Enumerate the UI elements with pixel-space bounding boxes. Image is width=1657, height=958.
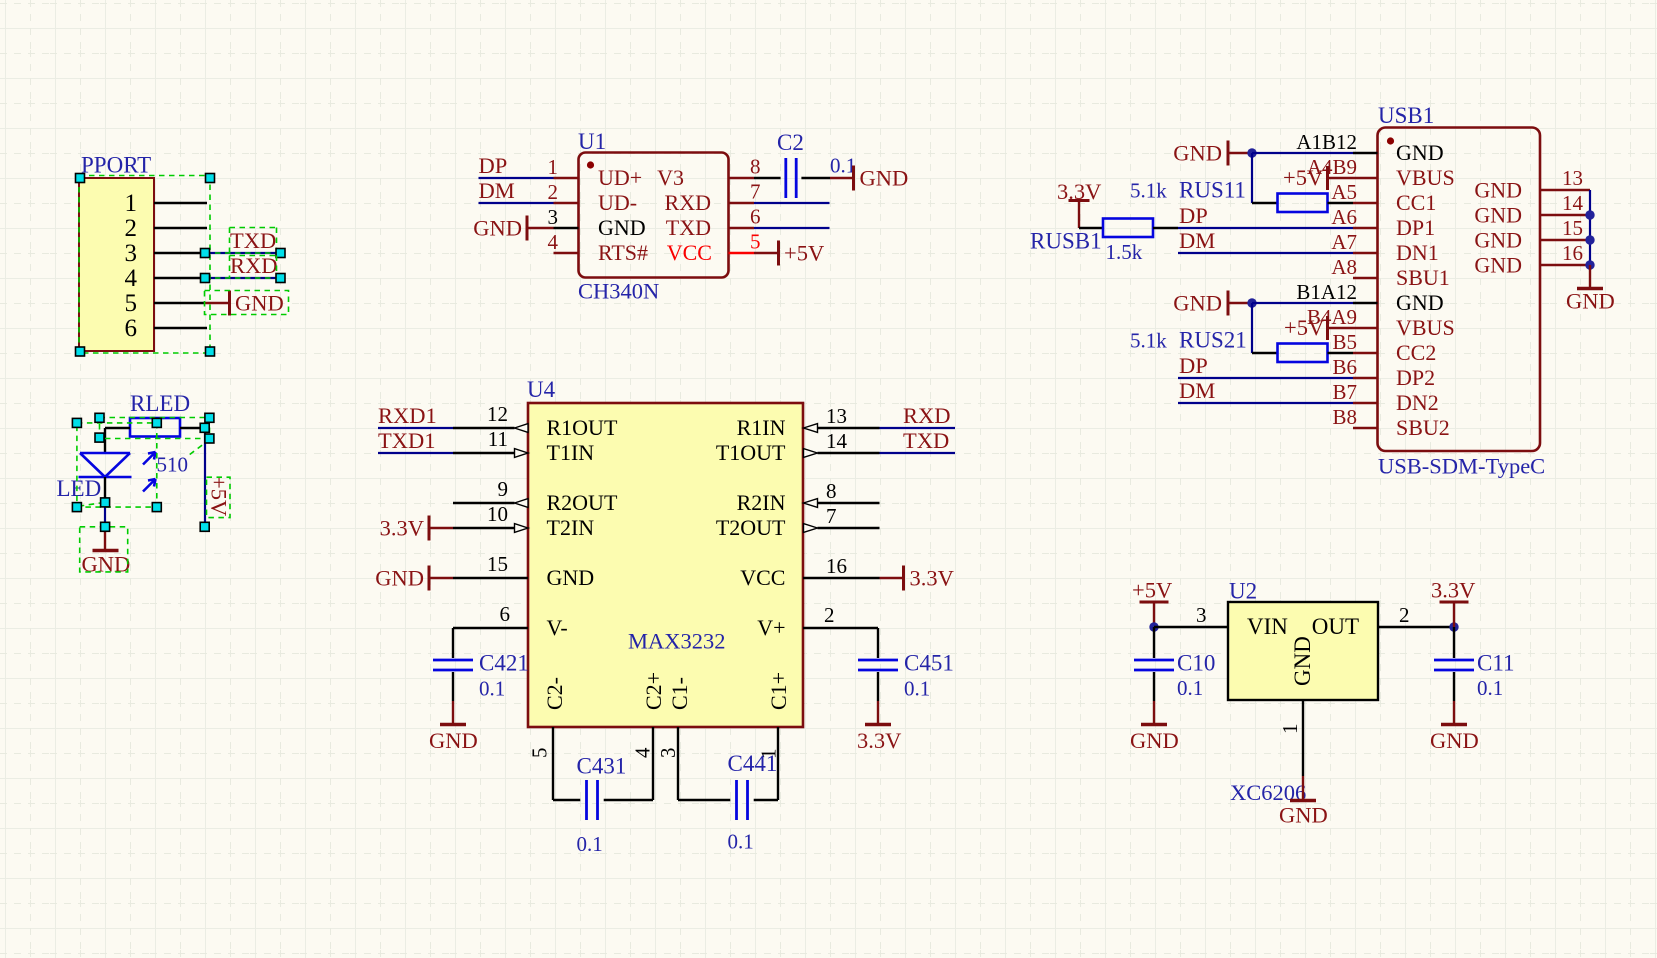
svg-text:A1B12: A1B12 [1296,130,1357,154]
wire RUS11 to CC1 [1328,202,1354,204]
svg-text:GND: GND [598,215,646,240]
svg-text:DN2: DN2 [1396,390,1439,415]
U4 pin 5 wire [552,727,554,800]
svg-text:+5V: +5V [1283,165,1323,190]
selection handles RXD wire [201,274,210,283]
svg-text:DM: DM [479,178,515,203]
capacitor C421 [433,659,473,662]
svg-text:TXD: TXD [666,215,711,240]
svg-text:GND: GND [860,166,909,191]
USB1 pin stub row 6 [1353,277,1378,279]
selection handles RLED LED group [72,418,81,427]
svg-text:GND: GND [1430,728,1479,753]
U1 pin 4 stub [554,252,579,254]
svg-text:T2OUT: T2OUT [716,515,786,540]
selection box RLED group [100,418,210,439]
svg-text:VIN: VIN [1247,614,1288,639]
wire LED cathode down [104,477,106,502]
wire LED to ground [104,502,106,527]
ground GND right of USB1 [1589,265,1591,287]
svg-text:RUSB1: RUSB1 [1030,229,1102,254]
svg-text:2: 2 [548,180,559,204]
PPORT pin 2 wire [154,227,207,229]
svg-text:DP: DP [1179,353,1208,378]
svg-text:DP: DP [479,153,508,178]
wire GND B to USB1 [1252,302,1353,304]
svg-text:13: 13 [1562,166,1583,190]
svg-text:SBU1: SBU1 [1396,265,1450,290]
svg-text:RXD: RXD [665,190,711,215]
svg-text:UD+: UD+ [598,165,642,190]
svg-text:GND: GND [473,216,522,241]
svg-text:1: 1 [548,155,559,179]
selection handles TXD wire [201,249,210,258]
svg-text:UD-: UD- [598,190,637,215]
wire net TXD right [880,452,956,454]
svg-text:C431: C431 [577,754,627,779]
svg-text:1: 1 [125,190,138,217]
U4 pin 2 wire V+ [803,627,878,629]
svg-text:6: 6 [750,205,761,229]
U4 pin 14 wire [818,452,880,454]
svg-text:15: 15 [487,552,508,576]
svg-text:PPORT: PPORT [81,153,151,178]
USB1 pin stub row 7 [1353,302,1378,304]
svg-text:A5: A5 [1331,180,1357,204]
U1 pin 3 stub [554,227,579,229]
power port 3.3V below C451 [865,723,891,727]
U4 pin 3 wire [677,727,679,800]
U4 pin 12 arrow out [515,424,529,433]
ground GND below C10 [1153,701,1155,723]
selection leader line to GND [79,502,104,506]
svg-text:+5V: +5V [784,241,824,266]
selection box LED group [77,423,157,507]
svg-text:GND: GND [1566,289,1615,314]
svg-text:GND: GND [375,566,424,591]
U4 pin 8 wire [818,502,880,504]
svg-text:VBUS: VBUS [1396,315,1455,340]
svg-text:DP2: DP2 [1396,365,1435,390]
U4 pin 9 arrow out [515,499,529,508]
wire RUS21 to CC2 [1328,352,1354,354]
wire net RXD right [880,427,956,429]
svg-text:TXD: TXD [230,228,276,253]
svg-text:VBUS: VBUS [1396,165,1455,190]
svg-text:0.1: 0.1 [1477,676,1503,700]
svg-text:0.1: 0.1 [577,832,603,856]
svg-text:0.1: 0.1 [904,677,930,701]
selection box around PPORT [79,176,210,354]
svg-text:R1IN: R1IN [737,415,786,440]
svg-text:B8: B8 [1332,405,1357,429]
wire 3.3V to RUSB1 [1079,227,1103,229]
svg-text:5: 5 [750,230,761,254]
selection handles PPORT [76,174,85,183]
capacitor C2 [784,158,787,198]
resistor RUS21 body [1278,344,1328,363]
U4 pin 11 wire [453,452,515,454]
selection box RXD label [230,255,277,257]
junction dot shield 14 [1585,210,1594,219]
svg-text:U1: U1 [578,129,606,154]
svg-text:5: 5 [528,748,552,759]
PPORT pin 4 wire [154,277,205,279]
ground port GND mid left of USB1 [1227,291,1230,316]
svg-text:GND: GND [1173,291,1222,316]
svg-text:16: 16 [826,554,847,578]
USB1 pin 1 orientation dot [1387,137,1394,144]
svg-text:3: 3 [656,748,680,759]
svg-text:GND: GND [1130,728,1179,753]
capacitor C431 [585,780,588,820]
svg-text:RLED: RLED [130,391,190,416]
PPORT pin 3 wire [154,252,205,254]
svg-text:12: 12 [487,402,508,426]
svg-text:5: 5 [125,290,138,317]
svg-text:B1A12: B1A12 [1296,280,1357,304]
svg-text:C11: C11 [1477,651,1515,676]
U4 pin 15 wire [453,577,528,579]
IC U4 MAX3232 body [528,403,803,727]
wire C451 to 3.3V [877,672,879,701]
svg-text:6: 6 [125,315,138,342]
capacitor C11 [1453,627,1455,658]
svg-text:C2: C2 [777,130,804,155]
svg-text:5.1k: 5.1k [1130,179,1167,203]
resistor RUSB1 body [1103,219,1153,238]
U1 pin 7 stub [729,202,755,204]
USB1 shield pin 14 wire [1540,214,1590,216]
svg-text:V-: V- [547,615,568,640]
ground port GND right of C2 [852,166,855,191]
USB1 pin stub row 8 [1353,327,1378,329]
PPORT pin 5 wire [154,302,205,304]
U1 pin 5 stub [729,252,755,254]
USB1 pin stub row 3 [1353,202,1378,204]
svg-text:DM: DM [1179,378,1215,403]
U4 pin 8 arrow in [804,499,818,508]
svg-text:8: 8 [750,155,761,179]
wire junction down to RUS11 [1251,153,1253,203]
svg-text:RXD: RXD [230,253,278,278]
U4 pin 6 wire V- [453,627,528,629]
U1 pin 2 stub [554,202,579,204]
wire RUSB1 to DP net [1153,227,1178,229]
wire from RLED right [180,427,205,429]
svg-text:CH340N: CH340N [578,279,659,304]
wire net TXD [205,252,280,254]
svg-text:GND: GND [1474,228,1522,253]
svg-text:3.3V: 3.3V [380,516,424,541]
svg-text:9: 9 [498,477,509,501]
wire net DP B [1178,377,1353,379]
LED emission arrow 1 [143,452,156,465]
wire net DP to U1 [479,177,554,179]
ground port GND at U1 pin 3 [526,216,529,241]
svg-text:GND: GND [1290,636,1315,686]
svg-text:1.5k: 1.5k [1106,240,1143,264]
svg-text:3.3V: 3.3V [857,728,901,753]
svg-text:3: 3 [548,205,559,229]
svg-text:GND: GND [82,552,131,577]
ground GND below C11 [1453,701,1455,723]
U4 pin 13 arrow in [804,424,818,433]
svg-text:USB-SDM-TypeC: USB-SDM-TypeC [1378,454,1545,479]
connector USB1 body [1378,128,1541,452]
svg-text:7: 7 [826,504,837,528]
svg-text:RUS21: RUS21 [1179,328,1247,353]
ground GND below U2 [1302,776,1304,799]
svg-text:10: 10 [487,502,508,526]
U4 pin 12 wire [453,427,515,429]
junction dot shield 16 [1585,260,1594,269]
U4 pin 7 arrow out [804,524,818,533]
USB1 shield pin 15 wire [1540,239,1590,241]
power port +5V at U1 pin5 [777,241,780,266]
ground GND below LED [104,527,106,549]
wire net +5V vertical [204,428,206,527]
U4 pin 9 wire [453,502,515,504]
wire U1 pin8 to C2 [754,177,781,179]
svg-text:C1-: C1- [667,677,692,710]
USB1 pin stub row 5 [1353,252,1378,254]
svg-text:DP1: DP1 [1396,215,1435,240]
connector PPORT body [79,178,154,351]
U4 pin 7 wire [818,527,880,529]
LED emission arrow 2 [143,479,156,492]
wire net DM to U1 [479,202,554,204]
svg-text:B7: B7 [1332,380,1357,404]
svg-text:3: 3 [1196,603,1207,627]
svg-text:R2OUT: R2OUT [547,490,618,515]
ground port GND at U4 pin 15 [428,566,431,591]
wire net DP A [1178,227,1353,229]
svg-text:DN1: DN1 [1396,240,1439,265]
USB1 pin stub row 1 [1353,152,1378,154]
svg-text:15: 15 [1562,216,1583,240]
USB1 pin stub row 9 [1353,352,1378,354]
wire from RLED left [105,427,130,429]
svg-text:C1+: C1+ [766,672,791,710]
capacitor C441 [735,780,738,820]
svg-text:GND: GND [1396,290,1444,315]
svg-text:GND: GND [429,728,478,753]
svg-text:TXD1: TXD1 [378,428,436,453]
svg-text:RTS#: RTS# [598,240,648,265]
wire +5V to U2 VIN [1154,626,1228,628]
power port 3.3V at U4 pin 16 [902,566,905,591]
svg-text:LED: LED [57,476,102,501]
wire net RXD from U1 pin7 [754,202,830,204]
svg-text:B6: B6 [1332,355,1357,379]
svg-text:R1OUT: R1OUT [547,415,618,440]
svg-text:V+: V+ [757,615,785,640]
svg-text:8: 8 [826,479,837,503]
svg-text:GND: GND [1396,140,1444,165]
svg-text:0.1: 0.1 [1177,676,1203,700]
svg-text:GND: GND [1173,141,1222,166]
svg-text:OUT: OUT [1312,614,1359,639]
wire GND A to USB1 [1252,152,1353,154]
svg-text:0.1: 0.1 [479,677,505,701]
selection leader line to +5V [190,443,205,454]
svg-text:DP: DP [1179,203,1208,228]
junction dot GND B [1247,298,1256,307]
capacitor C451 [858,659,898,662]
wire U1 pin5 to +5V [754,252,779,254]
svg-text:2: 2 [125,215,138,242]
svg-text:+5V: +5V [1132,578,1172,603]
svg-text:0.1: 0.1 [728,830,754,854]
svg-text:C451: C451 [904,651,954,676]
U4 pin 11 arrow in [515,449,529,458]
svg-text:GND: GND [1474,253,1522,278]
selection box GND label LED [80,527,128,572]
junction dot 3.3V C11 [1449,622,1458,631]
PPORT pin 1 wire [154,202,207,204]
selection box GND label [205,291,289,315]
svg-text:13: 13 [826,404,847,428]
wire C421 to GND [452,672,454,701]
regulator U2 XC6206 body [1228,602,1378,700]
USB1 pin stub row 2 [1353,177,1378,179]
U4 pin 16 wire VCC [803,577,880,579]
svg-text:4: 4 [125,265,138,292]
svg-text:B5: B5 [1332,330,1357,354]
svg-text:DM: DM [1179,228,1215,253]
svg-text:GND: GND [547,565,595,590]
U1 pin 6 stub [729,227,755,229]
wire net TXD1 [378,452,453,454]
svg-text:C2-: C2- [542,677,567,710]
svg-text:4: 4 [631,747,655,758]
svg-text:GND: GND [235,291,284,316]
svg-text:RUS11: RUS11 [1179,178,1246,203]
U4 pin 4 wire [604,799,653,801]
svg-text:3: 3 [125,240,138,267]
wire shield bus vertical [1589,190,1591,265]
svg-text:C441: C441 [728,751,778,776]
wire junction down to RUS21 [1251,303,1253,353]
wire net DM B [1178,402,1353,404]
U4 pin 14 arrow out [804,449,818,458]
PPORT pin 6 wire [154,327,207,329]
resistor RUS11 body [1278,194,1328,213]
wire net TXD from U1 pin6 [754,227,830,229]
svg-text:6: 6 [500,602,511,626]
svg-text:16: 16 [1562,241,1583,265]
ground GND below C421 [440,723,466,727]
power port 3.3V at U4 pin 10 [428,516,431,541]
U4 pin 1 wire [754,799,778,801]
svg-text:3.3V: 3.3V [910,566,954,591]
svg-text:CC1: CC1 [1396,190,1436,215]
U4 pin 13 wire [818,427,880,429]
USB1 pin stub row 11 [1353,402,1378,404]
junction dot shield 15 [1585,235,1594,244]
svg-text:5.1k: 5.1k [1130,329,1167,353]
ground port GND at PPORT pin 5 [205,302,230,304]
svg-text:V3: V3 [657,165,684,190]
svg-text:3.3V: 3.3V [1431,578,1475,603]
ground port GND upper left of USB1 [1227,141,1230,166]
selection box +5V label [207,477,231,517]
svg-text:C421: C421 [479,651,529,676]
USB1 pin stub row 12 [1353,427,1378,429]
selection box TXD label [230,227,277,229]
U2 pin 2 wire [1378,626,1454,628]
USB1 shield pin 16 wire [1540,264,1590,266]
wire C2 to GND [801,177,830,179]
svg-text:TXD: TXD [903,428,949,453]
svg-text:T1OUT: T1OUT [716,440,786,465]
svg-text:CC2: CC2 [1396,340,1436,365]
svg-text:VCC: VCC [667,240,712,265]
USB1 shield pin 13 wire [1540,189,1590,191]
svg-text:MAX3232: MAX3232 [628,629,726,654]
svg-text:U4: U4 [527,377,556,402]
svg-text:1: 1 [1278,724,1302,735]
svg-text:T1IN: T1IN [547,440,595,465]
svg-text:14: 14 [1562,191,1584,215]
USB1 pin stub row 10 [1353,377,1378,379]
svg-text:+5V: +5V [1284,315,1324,340]
svg-text:C2+: C2+ [641,672,666,710]
svg-text:RXD1: RXD1 [378,403,437,428]
wire net RXD1 [378,427,453,429]
U1 pin 1 orientation dot [587,161,594,168]
wire net DM A [1178,252,1353,254]
capacitor C10 [1153,627,1155,658]
svg-text:2: 2 [824,603,835,627]
svg-text:GND: GND [1474,178,1522,203]
LED D? symbol [79,453,132,477]
svg-text:7: 7 [750,180,761,204]
U2 pin 1 wire [1302,700,1304,776]
svg-text:T2IN: T2IN [547,515,595,540]
USB1 pin stub row 4 [1353,227,1378,229]
svg-text:C10: C10 [1177,651,1215,676]
svg-text:RXD: RXD [903,403,951,428]
U4 pin 10 arrow in [515,524,529,533]
svg-text:2: 2 [1399,603,1410,627]
svg-text:SBU2: SBU2 [1396,415,1450,440]
IC U1 CH340N body [579,153,729,278]
svg-text:510: 510 [157,453,189,477]
U1 pin 1 stub [554,177,579,179]
wire net RXD [205,277,280,279]
svg-text:14: 14 [826,429,848,453]
svg-text:U2: U2 [1229,579,1257,604]
junction dot +5V C10 [1149,622,1158,631]
svg-text:USB1: USB1 [1378,103,1434,128]
svg-text:A8: A8 [1331,255,1357,279]
resistor RLED body [130,418,180,437]
svg-text:GND: GND [1474,203,1522,228]
svg-text:A6: A6 [1331,205,1357,229]
svg-text:VCC: VCC [740,565,785,590]
U4 pin 10 wire [453,527,515,529]
svg-text:+5V: +5V [207,476,232,516]
svg-text:11: 11 [488,427,508,451]
svg-text:GND: GND [1279,803,1328,828]
svg-text:A7: A7 [1331,230,1357,254]
svg-text:R2IN: R2IN [737,490,786,515]
junction dot GND A [1247,148,1256,157]
U1 pin 8 stub [729,177,755,179]
svg-text:4: 4 [548,230,559,254]
